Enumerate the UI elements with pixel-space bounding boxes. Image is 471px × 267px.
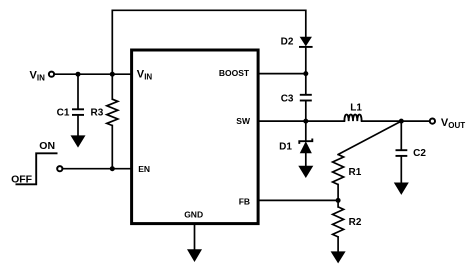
svg-text:BOOST: BOOST <box>219 68 250 78</box>
wire FB to IC <box>258 199 338 201</box>
svg-text:FB: FB <box>239 196 250 206</box>
wire C3 to SW node <box>305 101 307 121</box>
switch ON/OFF step waveform <box>16 153 58 184</box>
ground below R2 <box>331 251 346 263</box>
terminal VOUT circle <box>430 119 435 124</box>
wire BOOST node to C3 <box>305 74 307 95</box>
wire R3 top <box>111 74 113 99</box>
svg-text:GND: GND <box>184 209 203 219</box>
wire R3 bottom to EN <box>111 126 113 169</box>
wire R1 bottom to FB node <box>337 185 339 207</box>
ground below C1 <box>71 135 86 147</box>
svg-text:C1: C1 <box>57 108 70 119</box>
ground below GND pin <box>187 249 202 262</box>
svg-text:OFF: OFF <box>11 173 33 185</box>
svg-text:R3: R3 <box>91 107 104 118</box>
inductor L1 <box>344 115 361 122</box>
node EN-R3 junction <box>110 166 115 171</box>
wire EN to IC <box>63 168 131 170</box>
capacitor C3 <box>300 95 312 101</box>
diode D2 <box>299 37 313 47</box>
resistor R1 <box>333 155 344 185</box>
svg-text:L1: L1 <box>350 102 362 113</box>
wire diagonal output to R1 <box>338 121 401 154</box>
wire D2 cathode to BOOST node <box>305 47 307 73</box>
wire BOOST <box>258 73 306 75</box>
svg-text:IN: IN <box>37 73 45 82</box>
diode D1 schottky <box>299 139 312 153</box>
node FB-R1-R2 junction <box>336 198 341 203</box>
wire output node to C2 <box>400 121 402 150</box>
wire L1 to VOUT <box>362 120 429 122</box>
svg-text:IN: IN <box>144 73 152 82</box>
svg-text:R2: R2 <box>349 217 362 228</box>
svg-text:OUT: OUT <box>448 121 465 130</box>
wire top loop VIN to D2 <box>112 10 305 74</box>
switch EN circle <box>57 166 62 171</box>
svg-text:ON: ON <box>39 140 55 152</box>
wire C1 branch upper <box>77 74 79 109</box>
ground below C2 <box>394 183 409 195</box>
node VOUT junction <box>399 119 404 124</box>
node BOOST-D2 junction <box>303 71 308 76</box>
svg-text:R1: R1 <box>349 167 362 178</box>
wire SW node to D1 <box>305 121 307 140</box>
svg-text:C3: C3 <box>281 94 294 105</box>
ground below D1 <box>298 166 313 178</box>
op-amp U1 regulator IC body <box>132 50 259 224</box>
svg-text:D1: D1 <box>279 142 292 153</box>
resistor R2 <box>333 207 344 237</box>
resistor R3 <box>107 99 118 125</box>
svg-text:D2: D2 <box>281 37 294 48</box>
wire C1 to ground <box>77 116 79 136</box>
node VIN-C1 junction <box>76 72 81 77</box>
svg-text:C2: C2 <box>413 148 426 159</box>
svg-text:SW: SW <box>236 116 251 126</box>
terminal VIN circle <box>49 72 54 77</box>
wire GND pin to ground <box>194 224 196 250</box>
svg-text:EN: EN <box>138 164 150 174</box>
capacitor C2 <box>396 150 408 156</box>
wire D1 anode to ground <box>305 153 307 166</box>
node VIN-R3 junction <box>110 72 115 77</box>
wire VIN input to IC <box>55 73 131 75</box>
wire R2 bottom to ground <box>337 237 339 252</box>
wire C2 to ground <box>400 156 402 182</box>
capacitor C1 <box>72 109 84 115</box>
node SW-C3-D1 junction <box>303 119 308 124</box>
wire SW to L1 <box>258 120 344 122</box>
